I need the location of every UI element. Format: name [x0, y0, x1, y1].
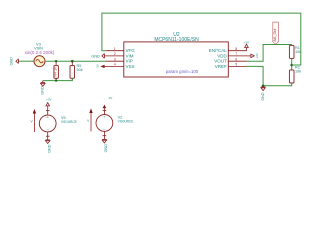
svg-text:GND: GND [91, 54, 100, 58]
pin 5 VREF [228, 65, 246, 67]
ground GND (rotated, at V3 left terminal) [16, 59, 19, 64]
V polarity arrow of V2 [89, 108, 92, 113]
wire feedback loop junction to VFG [102, 13, 301, 65]
svg-text:VSOURCE: VSOURCE [61, 120, 77, 124]
svg-text:-3V: -3V [95, 64, 99, 69]
node junction at R5 top [71, 60, 74, 63]
svg-text:VIM: VIM [126, 53, 134, 58]
svg-text:50k: 50k [77, 68, 83, 72]
V polarity arrow of V5 [33, 109, 36, 114]
svg-text:VDD: VDD [217, 53, 227, 58]
svg-text:GND: GND [104, 144, 108, 153]
svg-text:2: 2 [114, 52, 116, 56]
svg-text:GND: GND [9, 57, 13, 66]
node junction R1/R2 [290, 64, 293, 67]
wire V3 to VIP pin [45, 60, 106, 62]
svg-text:+3V: +3V [46, 98, 51, 102]
svg-text:3: 3 [114, 57, 116, 61]
svg-text:8: 8 [235, 47, 237, 51]
svg-text:GND: GND [40, 86, 44, 95]
pin 7 VDD [228, 55, 246, 57]
wire VREF to GND corner [247, 66, 264, 85]
resistor R5 50k (vertical) [71, 61, 73, 65]
ground GND (below V5) [46, 132, 50, 144]
ground GND (below V2) [102, 131, 106, 143]
voltage source V2 VSOURCE [96, 115, 113, 132]
voltage source V5 VSOURCE [39, 115, 56, 132]
wire bottom rail under R4/R5 [43, 78, 73, 80]
svg-text:GND: GND [261, 92, 265, 101]
pin 2 VIM [106, 55, 124, 57]
svg-text:1: 1 [114, 47, 116, 51]
resistor R4 1k (vertical, rotated text) [55, 61, 57, 65]
svg-text:VSOURCE: VSOURCE [118, 119, 134, 123]
pin 4 VSS [106, 65, 124, 67]
node junction at R4 bottom [55, 79, 57, 81]
node junction at R4 top [55, 60, 57, 62]
power -3V (at VSS pin, filled left arrow) [100, 65, 104, 68]
wire VOUT loop up to R1 [247, 45, 292, 62]
svg-text:AA_Out: AA_Out [273, 29, 277, 42]
svg-text:7: 7 [235, 52, 237, 56]
wire R1 to R2 [291, 58, 293, 70]
pin 8 EN/*CAL [228, 50, 246, 52]
svg-text:−: − [46, 128, 49, 133]
svg-text:10k: 10k [295, 69, 301, 73]
svg-text:+3V: +3V [255, 53, 259, 58]
voltage source V3 (sine) [34, 56, 45, 67]
svg-text:4: 4 [114, 63, 116, 67]
svg-text:10k: 10k [295, 50, 301, 54]
resistor R1 10k [291, 44, 293, 47]
ground GND (below divider) [261, 86, 265, 91]
ground GND (below rail) [41, 81, 45, 87]
svg-text:−: − [103, 127, 106, 132]
svg-text:R4 1k: R4 1k [53, 67, 57, 77]
node junction at GND corner [262, 85, 265, 88]
svg-text:-3V: -3V [108, 96, 113, 100]
svg-text:param gmin=100: param gmin=100 [166, 69, 199, 74]
svg-text:6: 6 [235, 57, 237, 61]
pin 1 VFG [106, 50, 124, 52]
wire R2 bottom to GND corner [263, 83, 292, 86]
svg-text:5: 5 [235, 63, 237, 67]
svg-text:sin(0 2.6 200k): sin(0 2.6 200k) [25, 50, 55, 55]
node AA_Out (global label on VOUT wire) [273, 22, 279, 44]
svg-text:VSS: VSS [126, 64, 135, 69]
pin 6 VOUT [228, 60, 246, 62]
wire GND to V3 [19, 60, 34, 62]
svg-text:GND: GND [47, 144, 51, 153]
power +3V (at VDD pin, right arrow) [247, 54, 255, 58]
svg-text:VREF: VREF [215, 64, 227, 69]
pin 3 VIP [106, 60, 124, 62]
resistor R2 10k [289, 70, 294, 83]
